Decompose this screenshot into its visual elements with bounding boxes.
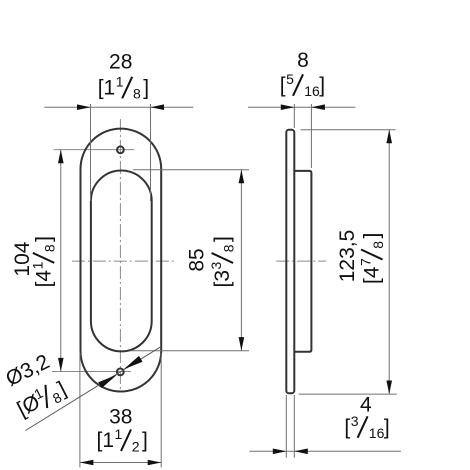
dim 28 line <box>44 106 193 108</box>
inner oval recess <box>91 171 152 352</box>
arrow 85 bottom <box>239 337 245 351</box>
svg-text:[4: [4 <box>32 270 55 288</box>
label [1 1/8] <box>98 73 149 101</box>
dim 123.5 extension lines <box>301 129 396 131</box>
svg-text:123,5: 123,5 <box>336 230 359 283</box>
label [dia 1/8] (rotated -31) <box>12 375 71 423</box>
svg-text:5: 5 <box>286 71 294 87</box>
svg-text:]: ] <box>211 236 234 242</box>
arrow 104 bottom <box>58 358 64 372</box>
dim 38 extension lines <box>79 353 81 467</box>
svg-text:]: ] <box>361 233 384 239</box>
arrow 28 right <box>151 104 165 110</box>
centerline through top hole <box>54 149 134 151</box>
svg-text:8: 8 <box>220 244 236 252</box>
label [3 3/8] (rotated) <box>208 236 236 287</box>
side centerline <box>276 260 326 262</box>
bottom screw hole <box>117 369 124 376</box>
svg-text:[: [ <box>280 74 286 97</box>
dim 38 line <box>80 462 161 464</box>
label [4 7/8] (rotated) <box>358 233 386 284</box>
svg-text:[1: [1 <box>98 76 116 99</box>
svg-text:]: ] <box>143 76 149 99</box>
label [1 1/2] <box>97 426 148 454</box>
svg-text:1: 1 <box>115 426 123 442</box>
label [5/16] <box>280 71 325 99</box>
svg-text:2: 2 <box>132 438 140 454</box>
arrow 28 left <box>77 104 91 110</box>
dim 4 line <box>249 450 401 452</box>
svg-text:[3: [3 <box>211 270 234 288</box>
label [3/16] <box>344 413 389 441</box>
leader arrow upper-right <box>124 356 143 369</box>
arrow 4 left <box>273 449 287 455</box>
svg-text:]: ] <box>319 74 325 97</box>
svg-text:8: 8 <box>297 49 309 72</box>
arrow 104 top <box>58 150 64 164</box>
arrow 85 top <box>239 170 245 184</box>
svg-text:]: ] <box>384 416 390 439</box>
svg-text:16: 16 <box>304 83 320 99</box>
dim 28 extension lines <box>90 104 92 201</box>
dim 4 extension lines <box>285 395 287 458</box>
leader arrow lower-left <box>98 375 117 388</box>
svg-text:1: 1 <box>116 73 124 89</box>
svg-text:8: 8 <box>42 244 58 252</box>
dim 85 extension lines <box>133 169 249 171</box>
arrow 123.5 bottom <box>386 381 392 395</box>
centerline through bottom hole <box>52 371 131 373</box>
horizontal centerline front view <box>72 260 177 262</box>
label [4 1/8] (rotated) <box>29 236 57 287</box>
svg-text:]: ] <box>142 429 148 452</box>
outer oval <box>81 129 162 392</box>
svg-text:28: 28 <box>109 51 132 74</box>
side recess cup <box>294 171 311 352</box>
svg-text:1: 1 <box>29 261 45 269</box>
side face plate <box>286 130 294 393</box>
arrow 4 right <box>294 449 308 455</box>
dim 8 line <box>248 106 356 108</box>
top screw hole <box>117 146 124 153</box>
vertical centerline front view <box>119 119 121 393</box>
dim 104 line <box>60 150 62 371</box>
svg-text:8: 8 <box>370 241 386 249</box>
dim 8 extension lines <box>293 104 295 128</box>
arrow 38 left <box>80 460 94 466</box>
arrow 8 right <box>311 104 325 110</box>
svg-text:]: ] <box>32 236 55 242</box>
svg-text:8: 8 <box>133 86 141 102</box>
dim 85 line <box>240 170 242 351</box>
leader line dia 3.2 <box>26 346 162 430</box>
svg-text:[1: [1 <box>97 429 115 452</box>
svg-text:104: 104 <box>11 241 34 276</box>
arrow 123.5 top <box>386 130 392 144</box>
svg-text:[: [ <box>344 416 350 439</box>
dim 123.5 line <box>388 130 390 394</box>
svg-text:3: 3 <box>351 413 359 429</box>
svg-text:[4: [4 <box>361 266 384 284</box>
svg-text:7: 7 <box>358 258 374 266</box>
arrow 38 right <box>148 460 162 466</box>
svg-text:85: 85 <box>186 248 209 271</box>
svg-text:16: 16 <box>369 425 385 441</box>
arrow 8 left <box>281 104 295 110</box>
svg-text:3: 3 <box>208 262 224 270</box>
svg-text:4: 4 <box>360 394 372 417</box>
